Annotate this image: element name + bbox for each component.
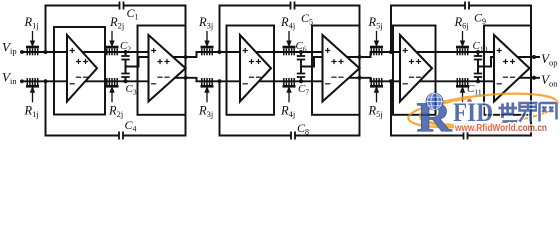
wire: top feedback loop of biquad 3 (C9 loop) <box>391 6 465 53</box>
resistor R6j (bottom) <box>456 78 469 102</box>
resistor R5j (bottom) <box>368 78 384 119</box>
resistor R4j (bottom) <box>280 78 296 119</box>
wire: midpoint of C2/C3 stack to next op-amp <box>126 57 149 67</box>
resistor R6j (top) <box>454 15 470 55</box>
wire: U2 bottom output to U3 input (with jog) <box>160 78 253 82</box>
node Vip (input +) <box>2 40 24 57</box>
op-amp U4 (fully differential) <box>323 35 360 102</box>
capacitor C9 <box>465 2 486 27</box>
resistor R5j (top) <box>368 15 384 55</box>
svg-text:www.RfidWorld.com.cn: www.RfidWorld.com.cn <box>454 123 547 134</box>
op-amp U1 feedback box <box>54 27 105 115</box>
node Vop (output +) <box>541 51 557 68</box>
op-amp U3 feedback box <box>227 26 275 115</box>
wire: U4 top output to U5 input (with jog) <box>334 52 413 57</box>
wire: U2 top output to U3 input (with jog) <box>160 52 253 57</box>
orange orbit ellipse of logo <box>407 88 559 134</box>
capacitor C2 (upper of inter-stage stack) <box>120 40 131 60</box>
resistor R3j (bottom) <box>198 78 214 119</box>
op-amp U5 feedback box <box>393 26 436 115</box>
op-amp U1 (fully differential) <box>67 35 97 102</box>
wire: U5 top output to U6 input <box>412 51 508 53</box>
wire: Vin through U1 to U2 -input (bottom rail) <box>20 80 163 82</box>
op-amp U3 (fully differential) <box>240 35 271 102</box>
wire: bottom feedback loop of biquad 1 (C4 loop) <box>46 81 120 135</box>
capacitor C3 (lower of inter-stage stack) <box>121 60 137 97</box>
capacitor C12 <box>464 132 468 140</box>
capacitor C11 (lower of inter-stage stack) <box>467 60 482 97</box>
wire: top feedback loop of biquad 2 (C5 loop) <box>220 6 291 53</box>
resistor R4j (top) <box>280 15 296 55</box>
logo globe <box>426 93 472 110</box>
wire: bottom feedback loop of biquad 3 (C12 loop) <box>391 81 464 135</box>
op-amp U2 feedback box <box>138 26 186 115</box>
capacitor C5 <box>291 2 314 27</box>
op-amp U5 (fully differential) <box>400 35 432 102</box>
wire: U6 top output to Vop <box>505 56 540 58</box>
op-amp U6 (fully differential) <box>494 35 530 102</box>
logo text 界 <box>520 103 537 122</box>
op-amp U4 feedback box <box>312 26 360 115</box>
wire: U4 bottom output to U5 input (with jog) <box>334 78 413 82</box>
logo text 网 <box>540 103 557 122</box>
wire: top feedback loop of biquad 1 (C1 loop) <box>46 6 120 53</box>
capacitor C10 (upper of inter-stage stack) <box>473 40 488 60</box>
resistor R1j (top) <box>24 15 40 55</box>
wire: bottom feedback loop of biquad 2 (C8 loop) <box>220 81 292 135</box>
capacitor C4 <box>119 118 137 140</box>
resistor R2j (bottom) <box>106 78 124 119</box>
resistor R2j (top) <box>106 15 125 55</box>
wire: midpoint of C6/C7 stack to next op-amp <box>301 57 323 67</box>
watermark logo: RFID-世界网 <box>407 88 559 142</box>
op-amp U6 feedback box <box>484 26 531 115</box>
logo text 世 <box>499 103 518 122</box>
capacitor C8 <box>291 121 309 140</box>
wire: midpoint of C10/C11 stack to next op-amp <box>478 57 494 67</box>
resistor R1j (bottom) <box>24 78 40 119</box>
op-amp U2 (fully differential) <box>149 35 186 102</box>
node Vin (input -) <box>2 70 24 87</box>
wire: U5 bottom output to U6 input <box>412 80 508 82</box>
wire: U6 bottom output to Von <box>505 77 540 79</box>
capacitor C6 (upper of inter-stage stack) <box>296 40 307 60</box>
node Von (output -) <box>541 72 558 89</box>
wire: U3 bottom output to U4 input <box>252 80 336 82</box>
capacitor C1 <box>120 2 139 22</box>
resistor R3j (top) <box>198 15 214 55</box>
node: junction dots <box>44 50 537 83</box>
wire: Vip through U1 to U2 +input (top rail) <box>20 51 163 53</box>
capacitor C7 (lower of inter-stage stack) <box>297 60 310 97</box>
wire: U3 top output to U4 input <box>252 51 336 53</box>
